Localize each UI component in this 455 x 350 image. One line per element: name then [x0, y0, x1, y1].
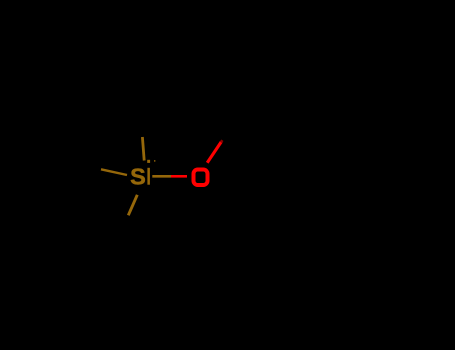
atom label Si : letter i stem [147, 168, 150, 185]
bond Si-O (Si olive half) [152, 175, 171, 178]
bond Si-C up (Si half) [142, 137, 144, 161]
atom label O [194, 170, 208, 186]
bond Si-C left (Si half) [101, 169, 127, 175]
bond Si-O (O red half) [171, 175, 187, 178]
svg-text:S: S [130, 164, 146, 190]
bond Si-C down-left (Si half) [128, 195, 137, 216]
bond O-C diagonal (O red half) [207, 142, 221, 163]
bond O-C diagonal dark tip fade [221, 140, 223, 142]
atom label Si : letter i dot [147, 160, 150, 163]
stray pixel right of i dot [154, 160, 155, 161]
